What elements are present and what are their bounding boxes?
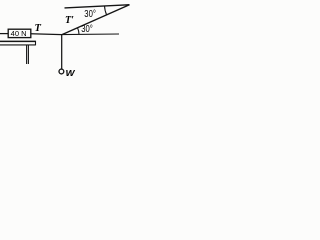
svg-text:30°: 30° <box>81 24 93 35</box>
svg-text:T′: T′ <box>65 15 74 26</box>
svg-text:30°: 30° <box>84 9 96 20</box>
svg-text:T: T <box>35 23 42 34</box>
svg-text:40 N: 40 N <box>11 29 27 38</box>
svg-text:W: W <box>66 68 76 78</box>
